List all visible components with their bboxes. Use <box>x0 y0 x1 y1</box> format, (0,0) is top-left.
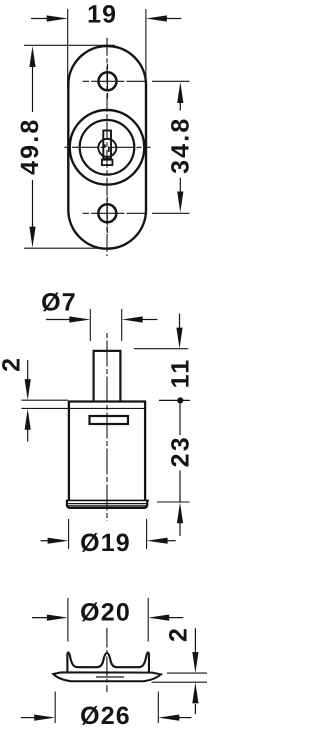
dim 2 cap top extension line <box>167 672 207 674</box>
dim 11 arrow <box>176 314 182 349</box>
keyway bottom tab <box>102 160 113 165</box>
cylinder inner circle <box>80 120 135 175</box>
rim top line <box>66 499 149 501</box>
keyway notch right <box>108 148 110 152</box>
dim 49.8 top extension line <box>24 44 115 46</box>
dim 19 right arrow <box>146 15 181 21</box>
body outline <box>69 402 145 501</box>
dim 2 cap label <box>164 626 192 642</box>
dim D19 right extension line <box>146 519 148 549</box>
screw hole bottom crosshair horizontal <box>83 212 148 214</box>
dim 23 bottom extension line <box>157 501 190 503</box>
horizontal center line cylinder <box>65 146 151 148</box>
dim D19 left extension line <box>68 519 70 549</box>
dim 34.8 bottom arrow <box>177 178 183 213</box>
dim D7 left extension line <box>89 309 91 341</box>
dim 2 cap top arrow <box>192 628 198 673</box>
dim D20 label <box>80 599 131 627</box>
dim D26 left arrow <box>21 715 55 721</box>
dim D26 right arrow <box>158 715 191 721</box>
dim 19 label <box>87 0 117 28</box>
svg-text:2: 2 <box>164 626 192 642</box>
cap spring profile <box>67 652 149 672</box>
dim D20 right arrow <box>148 615 183 621</box>
screw hole top <box>99 72 117 90</box>
dim 23 bottom arrow <box>177 471 183 537</box>
dim 2 top arrow <box>25 360 31 400</box>
cylinder outer circle <box>70 110 145 185</box>
screw hole top crosshair horizontal <box>83 80 148 82</box>
rim outline <box>67 500 147 508</box>
dim 49.8 bottom extension line <box>24 247 115 249</box>
dim D26 right extension line <box>157 692 159 724</box>
dim D7 right arrow <box>122 316 158 322</box>
dim 19 left arrow <box>31 15 68 21</box>
screw hole bottom <box>98 204 116 222</box>
svg-text:2: 2 <box>0 356 26 372</box>
dim 49.8 bottom arrow <box>29 180 35 248</box>
latch slot <box>90 416 129 424</box>
dim D7 label <box>41 288 77 316</box>
cap plate <box>53 672 161 681</box>
dim D20 left arrow <box>32 615 68 621</box>
svg-text:49.8: 49.8 <box>16 117 44 174</box>
dim 11/23 dot terminator line <box>159 399 190 401</box>
dim 34.8 bottom extension line <box>152 212 190 214</box>
svg-text:34.8: 34.8 <box>166 116 194 173</box>
dim D26 left extension line <box>54 692 56 724</box>
dim 2 cap bottom extension line <box>152 681 208 683</box>
dim 11 label <box>167 358 195 389</box>
rim inner line 2 <box>68 505 147 507</box>
keyway rectangle <box>103 131 111 159</box>
cylinder plug circle <box>98 139 116 157</box>
keyway notch left <box>104 144 106 147</box>
dim 19 right extension line <box>145 9 147 88</box>
vertical center line top view <box>106 38 108 256</box>
dim D19 left arrow <box>41 538 69 544</box>
dim 23 label <box>167 435 195 467</box>
rim inner line 1 <box>67 503 147 505</box>
svg-text:11: 11 <box>167 358 195 389</box>
dim 2 label <box>0 356 26 372</box>
screw hole top crosshair vertical <box>107 64 109 99</box>
oval plate outline <box>68 46 146 249</box>
dim D26 label <box>80 702 131 730</box>
dim 49.8 label <box>16 117 44 174</box>
svg-text:Ø20: Ø20 <box>80 599 131 627</box>
dim 34.8 top arrow <box>177 82 183 111</box>
center line middle view <box>106 333 108 521</box>
svg-text:Ø19: Ø19 <box>80 529 131 557</box>
dim D20 right extension line <box>147 598 149 642</box>
dim 2 cap bottom arrow <box>192 682 198 714</box>
svg-text:Ø26: Ø26 <box>80 702 131 730</box>
dim 34.8 top extension line <box>152 80 190 82</box>
dim D19 label <box>80 529 131 557</box>
screw hole bottom crosshair vertical <box>106 197 108 234</box>
dim 2 bottom arrow <box>25 409 31 442</box>
dim 2 top extension line <box>22 399 69 401</box>
body lip line / dim 2 bottom extension line <box>22 407 146 409</box>
dim 23 line upper segment <box>179 404 181 436</box>
dim 34.8 label <box>166 116 194 173</box>
dim D19 right arrow <box>147 538 176 544</box>
dim 19 left extension line <box>67 9 69 88</box>
svg-text:19: 19 <box>87 0 117 28</box>
cap center line <box>106 628 108 692</box>
cap plate inner line <box>96 676 124 678</box>
dim D7 left arrow <box>46 316 90 322</box>
svg-text:Ø7: Ø7 <box>41 288 77 316</box>
dim D7 right extension line <box>121 309 123 341</box>
svg-text:23: 23 <box>167 435 195 467</box>
dim 11 extension line <box>134 348 188 350</box>
plunger <box>94 351 121 402</box>
dim 11/23 dot terminator <box>177 397 183 403</box>
dim 49.8 top arrow <box>29 46 35 112</box>
dim D20 left extension line <box>67 598 69 642</box>
